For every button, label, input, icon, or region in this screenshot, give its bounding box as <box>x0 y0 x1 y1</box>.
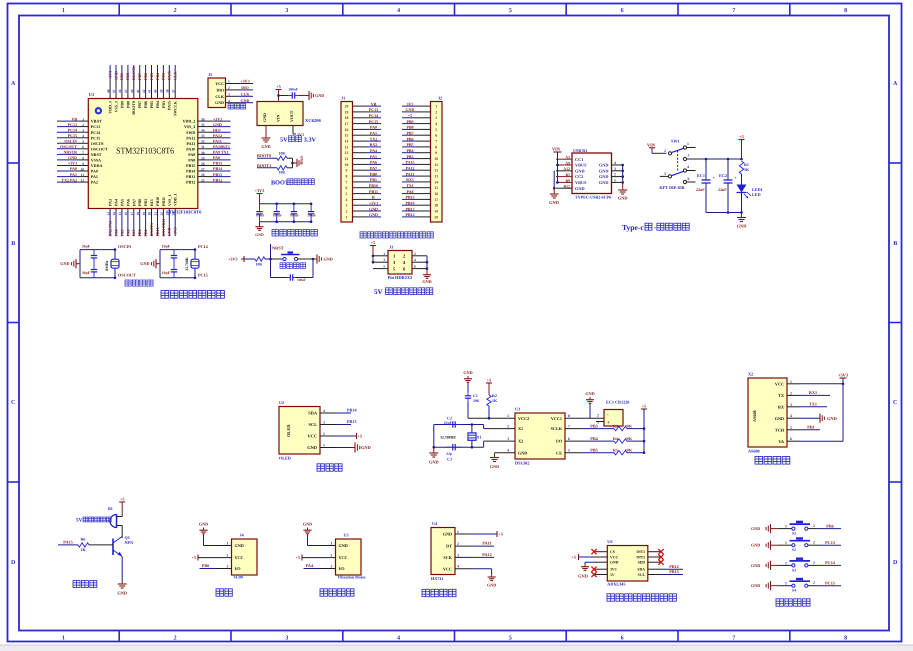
svg-text:VDD_2: VDD_2 <box>183 119 196 124</box>
svg-text:3: 3 <box>228 93 230 97</box>
svg-text:PA4: PA4 <box>306 563 314 568</box>
svg-text:ADXL345: ADXL345 <box>607 582 625 587</box>
svg-text:GND: GND <box>599 168 609 173</box>
svg-text:B9: B9 <box>565 179 570 183</box>
svg-text:GND: GND <box>827 416 837 421</box>
svg-text:A: A <box>893 81 898 87</box>
svg-text:DIO: DIO <box>241 85 249 90</box>
svg-text:5: 5 <box>435 128 437 132</box>
svg-text:PA1: PA1 <box>91 174 98 179</box>
svg-text:S1: S1 <box>792 532 796 536</box>
svg-text:PB10: PB10 <box>155 227 160 236</box>
svg-text:16: 16 <box>434 192 438 196</box>
svg-text:4: 4 <box>507 449 509 453</box>
svg-text:3: 3 <box>383 258 385 262</box>
svg-text:PA11: PA11 <box>213 139 222 144</box>
svg-text:35: 35 <box>201 123 205 127</box>
svg-text:36: 36 <box>201 118 205 122</box>
svg-text:PB1: PB1 <box>143 199 148 206</box>
svg-text:1: 1 <box>687 142 689 146</box>
svg-text:U1: U1 <box>89 92 95 97</box>
svg-text:PC13: PC13 <box>369 107 378 112</box>
svg-text:41: 41 <box>148 89 152 93</box>
svg-text:DT: DT <box>446 544 452 549</box>
svg-text:PA15: PA15 <box>167 71 172 80</box>
svg-text:15: 15 <box>118 212 122 216</box>
svg-text:5: 5 <box>383 265 385 269</box>
svg-text:42: 42 <box>142 89 146 93</box>
svg-text:PB15: PB15 <box>213 161 222 166</box>
svg-text:9: 9 <box>346 169 348 173</box>
svg-text:PB6: PB6 <box>143 101 148 108</box>
svg-text:4: 4 <box>346 198 348 202</box>
svg-text:PB3: PB3 <box>406 154 413 159</box>
svg-text:VCC: VCC <box>443 566 452 571</box>
svg-text:AS608: AS608 <box>748 449 760 454</box>
svg-text:14: 14 <box>345 140 349 144</box>
svg-text:12: 12 <box>80 179 84 183</box>
svg-text:GND: GND <box>361 445 371 450</box>
svg-text:S4: S4 <box>792 589 796 593</box>
svg-text:GND: GND <box>751 526 760 531</box>
svg-text:RX1 PB11: RX1 PB11 <box>161 219 166 237</box>
svg-text:U3: U3 <box>515 407 520 412</box>
svg-text:+5: +5 <box>276 84 280 89</box>
svg-text:18: 18 <box>136 212 140 216</box>
svg-text:PB10: PB10 <box>369 183 378 188</box>
svg-text:8: 8 <box>346 175 348 179</box>
svg-text:11: 11 <box>434 163 438 167</box>
svg-text:PA9 TX1: PA9 TX1 <box>213 150 229 155</box>
svg-text:GND: GND <box>610 561 619 565</box>
svg-text:B13: B13 <box>149 199 154 206</box>
svg-text:GND: GND <box>261 144 270 149</box>
svg-text:PB0: PB0 <box>370 171 377 176</box>
svg-text:A: A <box>11 81 16 87</box>
svg-text:2: 2 <box>813 581 815 585</box>
svg-text:R4: R4 <box>613 436 618 441</box>
svg-text:OSCIN: OSCIN <box>64 139 77 144</box>
svg-text:J2: J2 <box>438 96 442 101</box>
svg-text:HX711: HX711 <box>431 576 443 581</box>
svg-text:PB13: PB13 <box>186 174 195 179</box>
svg-text:GND: GND <box>68 155 77 160</box>
svg-text:GND: GND <box>599 174 609 179</box>
svg-text:+3V3: +3V3 <box>369 201 378 206</box>
svg-text:16: 16 <box>124 212 128 216</box>
svg-text:VBAT: VBAT <box>91 119 102 124</box>
svg-text:22uF: 22uF <box>696 187 705 192</box>
svg-text:SDA: SDA <box>308 411 318 416</box>
svg-text:39: 39 <box>160 89 164 93</box>
svg-text:21: 21 <box>154 212 158 216</box>
svg-text:2: 2 <box>435 110 437 114</box>
svg-text:R5: R5 <box>613 448 618 453</box>
svg-text:PC14: PC14 <box>68 127 77 132</box>
svg-text:PB9: PB9 <box>119 73 124 80</box>
svg-text:2: 2 <box>331 554 333 558</box>
svg-text:1: 1 <box>785 525 787 529</box>
svg-text:CLK: CLK <box>173 70 178 80</box>
svg-text:U6: U6 <box>607 539 612 544</box>
svg-text:10pF: 10pF <box>162 271 171 275</box>
svg-text:R6: R6 <box>81 537 86 542</box>
svg-text:34: 34 <box>201 129 205 133</box>
svg-text:PA12: PA12 <box>213 133 222 138</box>
svg-text:18: 18 <box>345 116 349 120</box>
svg-text:GND: GND <box>140 261 149 266</box>
svg-text:1: 1 <box>62 8 65 14</box>
svg-text:1: 1 <box>346 215 348 219</box>
svg-text:INT1: INT1 <box>636 550 645 554</box>
svg-text:KFT DIP-83B: KFT DIP-83B <box>659 185 684 190</box>
svg-text:10K: 10K <box>625 424 633 429</box>
svg-text:PB13: PB13 <box>669 569 679 574</box>
svg-text:+3V3: +3V3 <box>107 71 112 80</box>
svg-text:I/O: I/O <box>556 439 563 444</box>
svg-text:37: 37 <box>171 89 175 93</box>
svg-text:PB6: PB6 <box>406 136 413 141</box>
svg-text:9: 9 <box>82 162 84 166</box>
svg-text:GND: GND <box>167 228 172 237</box>
svg-text:PB15: PB15 <box>347 419 357 424</box>
svg-text:VSS_1: VSS_1 <box>113 101 118 112</box>
svg-text:RX2: RX2 <box>370 142 378 147</box>
svg-text:GND: GND <box>737 224 747 229</box>
svg-text:6: 6 <box>414 265 416 269</box>
svg-text:10K: 10K <box>625 436 633 441</box>
svg-text:GND: GND <box>490 464 499 469</box>
svg-text:DS1302: DS1302 <box>515 461 529 466</box>
svg-text:PB8: PB8 <box>125 101 130 108</box>
svg-text:PC14: PC14 <box>369 113 378 118</box>
svg-text:+3V3: +3V3 <box>240 79 249 84</box>
svg-text:INT2: INT2 <box>636 556 645 560</box>
svg-text:S3: S3 <box>792 568 796 572</box>
svg-text:100nF: 100nF <box>297 278 306 282</box>
svg-text:PC15: PC15 <box>68 133 77 138</box>
svg-text:1: 1 <box>435 105 437 109</box>
svg-text:PB3: PB3 <box>590 424 597 429</box>
svg-text:106: 106 <box>473 398 479 403</box>
svg-text:+3V3: +3V3 <box>173 227 178 236</box>
svg-text:3: 3 <box>82 129 84 133</box>
svg-text:VSS_1: VSS_1 <box>167 195 172 206</box>
svg-text:3: 3 <box>790 403 792 407</box>
svg-text:X1: X1 <box>477 434 482 439</box>
svg-text:PB14: PB14 <box>347 408 357 413</box>
svg-text:GND: GND <box>235 543 244 548</box>
svg-text:SG90: SG90 <box>234 575 243 580</box>
svg-text:22p: 22p <box>446 452 452 456</box>
svg-text:+5: +5 <box>371 240 375 245</box>
svg-text:10K: 10K <box>279 152 286 156</box>
svg-text:PA9: PA9 <box>188 152 195 157</box>
svg-text:4: 4 <box>457 565 459 569</box>
svg-text:7: 7 <box>568 425 570 429</box>
svg-text:32.768K: 32.768K <box>185 257 189 270</box>
svg-text:VDDA: VDDA <box>91 163 103 168</box>
svg-text:GND: GND <box>215 100 224 105</box>
svg-text:VIN: VIN <box>647 142 656 147</box>
svg-text:PB12: PB12 <box>186 180 195 185</box>
svg-text:VIN: VIN <box>276 115 281 122</box>
svg-text:GND: GND <box>575 186 585 191</box>
svg-text:2: 2 <box>813 524 815 528</box>
svg-text:+5: +5 <box>642 404 646 409</box>
svg-text:C: C <box>893 400 897 406</box>
svg-text:PA4: PA4 <box>370 148 377 153</box>
svg-text:8MHz: 8MHz <box>105 260 109 270</box>
svg-text:PC15: PC15 <box>198 272 208 277</box>
svg-text:VB: VB <box>371 101 377 106</box>
svg-text:S2: S2 <box>792 548 796 552</box>
svg-text:PA5: PA5 <box>119 229 124 236</box>
svg-text:SW1: SW1 <box>671 139 680 144</box>
svg-text:GND: GND <box>599 163 609 168</box>
svg-text:PB0: PB0 <box>137 199 142 206</box>
svg-text:CLK: CLK <box>241 92 251 97</box>
svg-text:2: 2 <box>227 554 229 558</box>
svg-text:GND: GND <box>775 416 784 421</box>
svg-text:SWD: SWD <box>186 130 195 135</box>
svg-text:2: 2 <box>174 8 177 14</box>
svg-text:10K: 10K <box>256 263 263 267</box>
svg-text:1: 1 <box>790 380 792 384</box>
svg-text:VCC: VCC <box>610 556 618 560</box>
svg-text:PB1: PB1 <box>807 424 814 429</box>
svg-text:PC14: PC14 <box>198 244 209 249</box>
svg-text:PA12: PA12 <box>482 552 491 557</box>
svg-text:6: 6 <box>346 186 348 190</box>
svg-text:GND: GND <box>339 543 348 548</box>
svg-text:2: 2 <box>597 414 599 418</box>
svg-text:32.768HZ: 32.768HZ <box>440 435 456 439</box>
svg-text:B: B <box>11 241 15 247</box>
svg-text:GND: GND <box>618 196 628 201</box>
svg-text:VDD_1: VDD_1 <box>108 101 113 114</box>
svg-text:PB14: PB14 <box>405 201 414 206</box>
svg-text:J3: J3 <box>389 245 393 250</box>
svg-text:PA7: PA7 <box>131 199 136 206</box>
svg-text:PC15: PC15 <box>91 135 100 140</box>
svg-text:17: 17 <box>130 212 134 216</box>
svg-text:BOOT1: BOOT1 <box>149 223 154 237</box>
svg-text:VCC: VCC <box>775 381 784 386</box>
svg-text:29: 29 <box>201 156 205 160</box>
svg-text:3: 3 <box>285 636 288 642</box>
svg-text:CS: CS <box>610 550 615 554</box>
svg-text:DIO: DIO <box>216 87 224 92</box>
svg-text:PA5: PA5 <box>370 154 377 159</box>
svg-text:GND: GND <box>199 522 208 527</box>
svg-text:GND: GND <box>213 122 222 127</box>
svg-text:USB R1: USB R1 <box>573 148 587 153</box>
svg-text:GND: GND <box>307 445 317 450</box>
svg-text:8: 8 <box>844 8 847 14</box>
svg-text:1: 1 <box>323 444 325 448</box>
svg-text:GND: GND <box>575 168 585 173</box>
svg-text:+5: +5 <box>408 113 412 118</box>
svg-text:BOOT0: BOOT0 <box>131 101 136 115</box>
svg-text:7: 7 <box>435 140 437 144</box>
svg-text:OSCOUT: OSCOUT <box>118 272 136 277</box>
svg-text:A5: A5 <box>565 156 570 160</box>
svg-text:GND: GND <box>429 460 439 465</box>
svg-text:U4: U4 <box>432 521 438 526</box>
svg-text:GND: GND <box>369 206 378 211</box>
svg-text:PB0: PB0 <box>202 563 209 568</box>
svg-text:14: 14 <box>434 180 438 184</box>
svg-text:8: 8 <box>435 145 437 149</box>
svg-text:10K: 10K <box>625 448 633 453</box>
svg-text:10: 10 <box>80 167 84 171</box>
svg-text:SED: SED <box>638 561 646 565</box>
svg-text:20: 20 <box>148 212 152 216</box>
svg-text:1: 1 <box>614 178 616 182</box>
svg-text:GND: GND <box>487 583 496 588</box>
svg-text:20: 20 <box>434 215 438 219</box>
svg-text:33: 33 <box>201 134 205 138</box>
svg-text:SCL: SCL <box>308 422 317 427</box>
svg-text:SWCLK: SWCLK <box>173 100 178 116</box>
svg-text:10: 10 <box>434 157 438 161</box>
svg-text:6: 6 <box>568 437 570 441</box>
svg-text:EC2: EC2 <box>719 173 727 178</box>
svg-text:PB5: PB5 <box>149 73 154 80</box>
svg-text:11: 11 <box>81 173 85 177</box>
svg-text:3: 3 <box>614 167 616 171</box>
svg-text:9: 9 <box>435 151 437 155</box>
svg-text:13: 13 <box>345 145 349 149</box>
svg-text:3V3: 3V3 <box>610 568 617 572</box>
svg-text:5: 5 <box>790 426 792 430</box>
svg-text:1K: 1K <box>744 167 750 172</box>
svg-text:3: 3 <box>331 565 333 569</box>
svg-text:6: 6 <box>82 145 84 149</box>
svg-text:GND: GND <box>751 583 760 588</box>
svg-text:PB14: PB14 <box>213 166 222 171</box>
svg-text:PB14: PB14 <box>186 169 195 174</box>
svg-text:4: 4 <box>687 165 689 169</box>
svg-text:VCC: VCC <box>215 81 224 86</box>
svg-text:22uF: 22uF <box>718 187 727 192</box>
svg-text:PA8: PA8 <box>188 158 195 163</box>
svg-text:4: 4 <box>435 122 437 126</box>
svg-text:PB1: PB1 <box>143 229 148 236</box>
svg-text:19: 19 <box>345 110 349 114</box>
svg-text:+5: +5 <box>487 378 491 383</box>
svg-text:12: 12 <box>345 151 349 155</box>
svg-text:VCC: VCC <box>235 555 244 560</box>
svg-text:4: 4 <box>323 409 325 413</box>
svg-text:GND: GND <box>585 391 594 396</box>
svg-text:+5: +5 <box>120 497 124 502</box>
svg-text:SCL: SCL <box>638 573 646 577</box>
svg-text:PA6: PA6 <box>125 229 130 236</box>
svg-text:47: 47 <box>112 89 116 93</box>
svg-text:PC13: PC13 <box>825 540 835 545</box>
svg-text:C3: C3 <box>447 457 452 462</box>
svg-text:PA15: PA15 <box>405 160 414 165</box>
svg-text:VCC2: VCC2 <box>518 416 529 421</box>
svg-text:SCK: SCK <box>443 555 452 560</box>
svg-text:40: 40 <box>154 89 158 93</box>
svg-text:3: 3 <box>285 8 288 14</box>
svg-text:3: 3 <box>457 553 459 557</box>
svg-text:VBUS: VBUS <box>575 163 587 168</box>
svg-text:PB12: PB12 <box>405 212 414 217</box>
svg-text:PA7: PA7 <box>370 166 377 171</box>
svg-text:BOOT1: BOOT1 <box>257 163 271 168</box>
svg-text:+3V3: +3V3 <box>68 161 77 166</box>
svg-text:18: 18 <box>434 204 438 208</box>
svg-text:GND: GND <box>578 574 588 579</box>
svg-text:20: 20 <box>345 105 349 109</box>
svg-text:GND: GND <box>406 107 415 112</box>
svg-text:BOOT0: BOOT0 <box>257 153 271 158</box>
svg-text:GND: GND <box>751 543 760 548</box>
svg-text:100nF: 100nF <box>256 214 265 218</box>
svg-text:26: 26 <box>201 173 205 177</box>
svg-text:PA10RX1: PA10RX1 <box>213 144 230 149</box>
svg-text:1: 1 <box>383 252 385 256</box>
svg-text:CE: CE <box>556 450 562 455</box>
svg-text:RX1: RX1 <box>406 177 414 182</box>
svg-text:PB3: PB3 <box>161 73 166 80</box>
svg-text:CLK: CLK <box>215 94 225 99</box>
svg-text:5: 5 <box>346 192 348 196</box>
svg-text:DIO: DIO <box>213 127 221 132</box>
svg-text:22: 22 <box>160 212 164 216</box>
svg-text:24: 24 <box>171 212 175 216</box>
svg-text:5: 5 <box>82 140 84 144</box>
svg-text:+3V3: +3V3 <box>838 372 849 377</box>
svg-text:PA3: PA3 <box>108 199 113 206</box>
svg-text:GND: GND <box>60 261 69 266</box>
svg-text:PC14: PC14 <box>91 130 100 135</box>
svg-text:1: 1 <box>785 582 787 586</box>
svg-text:TCH: TCH <box>775 427 785 432</box>
svg-text:6: 6 <box>790 437 792 441</box>
svg-text:PA2: PA2 <box>91 180 98 185</box>
svg-text:PB0: PB0 <box>137 229 142 236</box>
svg-text:2: 2 <box>664 149 666 153</box>
svg-text:VOUT: VOUT <box>289 110 294 122</box>
svg-text:17: 17 <box>345 122 349 126</box>
svg-text:EC1 CR1220: EC1 CR1220 <box>606 400 629 405</box>
svg-text:30pF: 30pF <box>82 271 91 275</box>
svg-text:+5: +5 <box>572 555 576 560</box>
svg-text:2: 2 <box>82 123 84 127</box>
svg-text:PA7: PA7 <box>131 229 136 236</box>
svg-text:+5: +5 <box>499 532 503 537</box>
svg-text:VBUS: VBUS <box>575 180 587 185</box>
svg-text:6: 6 <box>688 177 690 181</box>
svg-text:PA4: PA4 <box>113 229 118 236</box>
svg-text:2: 2 <box>614 173 616 177</box>
svg-text:GND: GND <box>117 591 127 596</box>
svg-text:PB7: PB7 <box>406 131 413 136</box>
svg-text:PA11: PA11 <box>482 541 491 546</box>
svg-text:32: 32 <box>201 140 205 144</box>
svg-text:25: 25 <box>201 179 205 183</box>
svg-text:PC13: PC13 <box>68 122 77 127</box>
svg-text:PA10: PA10 <box>186 146 195 151</box>
svg-text:EC1: EC1 <box>697 173 705 178</box>
svg-text:2: 2 <box>457 542 459 546</box>
svg-text:U5: U5 <box>344 533 349 538</box>
